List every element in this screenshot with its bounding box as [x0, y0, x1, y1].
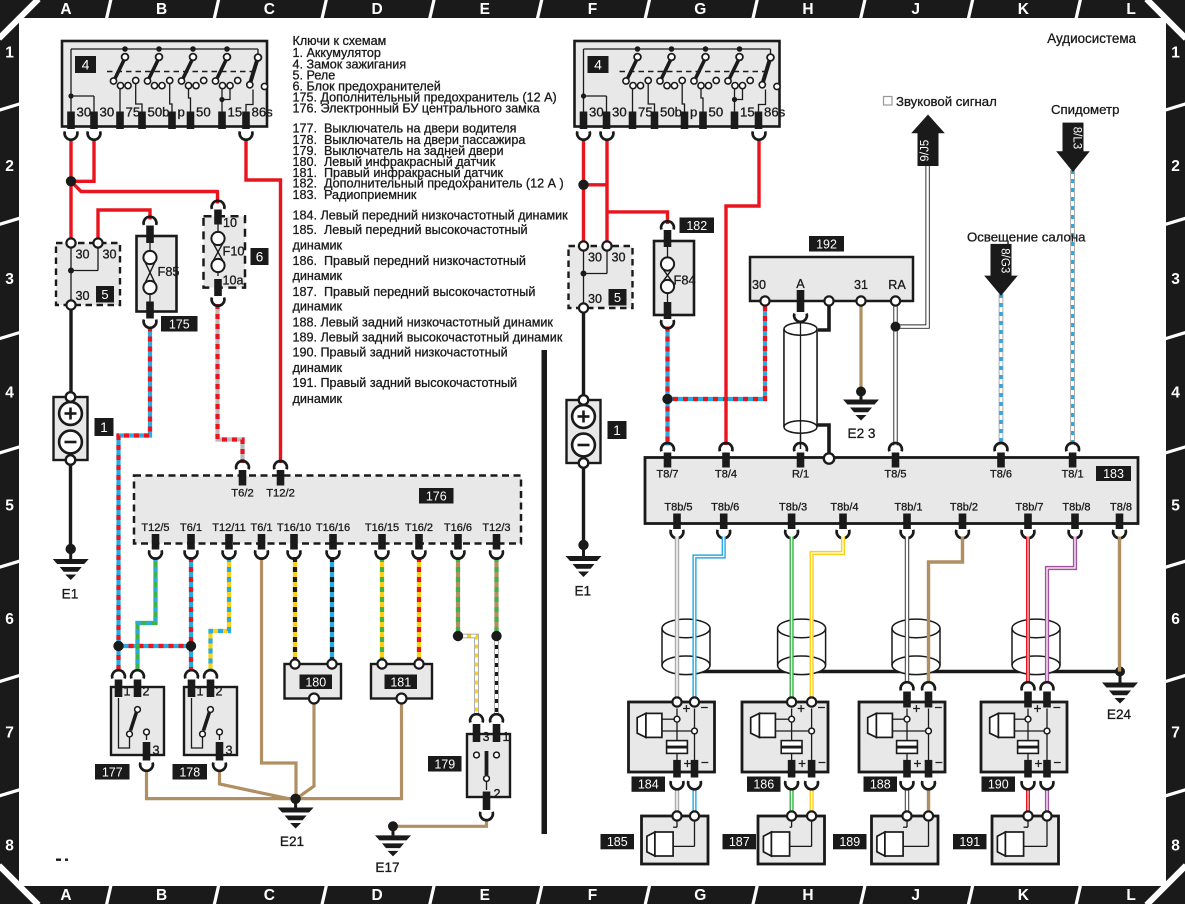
svg-text:T8b/1: T8b/1 — [894, 501, 922, 513]
svg-text:K: K — [1018, 1, 1030, 18]
svg-text:E: E — [480, 1, 490, 18]
svg-text:5: 5 — [1171, 498, 1180, 515]
svg-text:187. Правый передний высокоча: 187. Правый передний высокочастотный — [293, 285, 536, 299]
svg-text:A: A — [60, 887, 71, 904]
svg-text:187: 187 — [729, 835, 750, 849]
svg-text:−: − — [818, 700, 826, 715]
svg-text:184. Левый передний низкочасто: 184. Левый передний низкочастотный динам… — [293, 208, 569, 222]
svg-text:L: L — [1126, 1, 1135, 18]
svg-text:Звуковой сигнал: Звуковой сигнал — [896, 94, 997, 109]
svg-text:G: G — [694, 887, 706, 904]
svg-text:1: 1 — [100, 420, 108, 435]
svg-text:−: − — [935, 700, 943, 715]
svg-text:E1: E1 — [574, 584, 591, 599]
svg-text:T16/6: T16/6 — [444, 522, 472, 534]
svg-text:30: 30 — [588, 251, 602, 265]
svg-text:188: 188 — [870, 778, 891, 792]
svg-text:15: 15 — [740, 105, 755, 120]
svg-text:1: 1 — [503, 730, 510, 744]
svg-text:L: L — [1126, 887, 1135, 904]
svg-text:3: 3 — [226, 744, 233, 758]
svg-text:31: 31 — [854, 278, 868, 292]
svg-text:T8/6: T8/6 — [990, 469, 1012, 481]
svg-text:T8b/4: T8b/4 — [830, 501, 858, 513]
svg-text:1: 1 — [5, 45, 14, 62]
svg-text:−: − — [818, 755, 826, 770]
svg-text:30: 30 — [103, 248, 117, 262]
svg-text:T6/1: T6/1 — [180, 522, 202, 534]
svg-text:E2 3: E2 3 — [848, 426, 876, 441]
svg-text:6: 6 — [256, 249, 264, 264]
svg-text:p: p — [690, 105, 697, 120]
svg-text:7: 7 — [1171, 724, 1180, 741]
svg-text:T12/3: T12/3 — [482, 522, 510, 534]
svg-text:−: − — [701, 755, 709, 770]
svg-text:A: A — [60, 1, 71, 18]
svg-text:6: 6 — [1171, 611, 1180, 628]
svg-text:8: 8 — [5, 838, 14, 855]
svg-text:4: 4 — [594, 57, 602, 73]
svg-text:динамик: динамик — [293, 300, 343, 314]
svg-text:5: 5 — [614, 290, 621, 305]
svg-text:F85: F85 — [158, 264, 180, 279]
svg-text:183: 183 — [1103, 467, 1124, 481]
svg-text:C: C — [264, 887, 275, 904]
svg-text:T8/7: T8/7 — [656, 469, 678, 481]
svg-text:E1: E1 — [62, 587, 79, 602]
svg-text:4: 4 — [1171, 384, 1180, 401]
svg-text:15: 15 — [228, 105, 243, 120]
svg-text:177: 177 — [102, 765, 123, 779]
svg-text:RA: RA — [888, 278, 906, 292]
svg-text:R/1: R/1 — [792, 469, 809, 481]
svg-text:F10: F10 — [223, 244, 245, 259]
svg-text:C: C — [264, 1, 275, 18]
svg-text:30: 30 — [100, 105, 115, 120]
svg-text:динамик: динамик — [293, 238, 343, 252]
svg-text:+: + — [797, 701, 805, 716]
svg-text:184: 184 — [638, 778, 659, 792]
svg-text:189: 189 — [839, 835, 860, 849]
svg-text:2: 2 — [1171, 158, 1180, 175]
svg-text:176. Электронный БУ центрально: 176. Электронный БУ центрального замка — [293, 102, 540, 116]
svg-text:Спидометр: Спидометр — [1051, 102, 1119, 117]
svg-text:F84: F84 — [674, 273, 696, 288]
svg-text:178: 178 — [179, 765, 200, 779]
svg-text:G: G — [694, 1, 706, 18]
svg-text:3: 3 — [1171, 271, 1180, 288]
svg-text:189. Левый задний высокочастот: 189. Левый задний высокочастотный динами… — [293, 331, 563, 345]
svg-text:191: 191 — [959, 835, 980, 849]
svg-text:180: 180 — [305, 675, 326, 689]
svg-text:Аудиосистема: Аудиосистема — [1047, 31, 1136, 46]
svg-text:4: 4 — [82, 57, 90, 73]
svg-text:192: 192 — [816, 237, 837, 251]
svg-text:8/G3: 8/G3 — [999, 248, 1011, 273]
svg-text:86s: 86s — [252, 105, 274, 120]
svg-text:190. Правый задний низкочастот: 190. Правый задний низкочастотный — [293, 346, 508, 360]
svg-text:H: H — [802, 1, 813, 18]
svg-text:+: + — [798, 756, 806, 771]
svg-text:10a: 10a — [223, 274, 244, 288]
svg-text:−: − — [1053, 700, 1061, 715]
svg-text:5: 5 — [101, 287, 108, 302]
svg-text:9/J5: 9/J5 — [920, 140, 932, 162]
svg-text:F: F — [588, 887, 597, 904]
svg-text:30: 30 — [76, 248, 90, 262]
svg-text:T16/2: T16/2 — [405, 522, 433, 534]
svg-text:−: − — [701, 700, 709, 715]
svg-text:E: E — [480, 887, 490, 904]
svg-text:T6/1: T6/1 — [250, 522, 272, 534]
svg-text:J: J — [911, 1, 920, 18]
svg-text:T8b/5: T8b/5 — [664, 501, 692, 513]
svg-text:K: K — [1018, 887, 1030, 904]
svg-text:30: 30 — [76, 289, 90, 303]
svg-text:динамик: динамик — [293, 361, 343, 375]
svg-text:1: 1 — [1171, 45, 1180, 62]
svg-text:динамик: динамик — [293, 392, 343, 406]
svg-text:+: + — [914, 756, 922, 771]
svg-text:+: + — [683, 701, 691, 716]
svg-text:T16/16: T16/16 — [316, 522, 350, 534]
svg-text:T16/10: T16/10 — [277, 522, 311, 534]
svg-text:30: 30 — [612, 105, 627, 120]
svg-text:B: B — [156, 1, 167, 18]
svg-text:E17: E17 — [375, 860, 399, 875]
svg-text:30: 30 — [752, 278, 766, 292]
svg-text:2: 2 — [143, 685, 150, 699]
svg-text:30: 30 — [588, 292, 602, 306]
svg-text:50b: 50b — [148, 105, 170, 120]
svg-text:6: 6 — [5, 611, 14, 628]
svg-text:T12/5: T12/5 — [141, 522, 169, 534]
svg-text:181: 181 — [390, 675, 411, 689]
svg-text:T8/4: T8/4 — [715, 469, 737, 481]
svg-text:−: − — [935, 755, 943, 770]
svg-text:T12/2: T12/2 — [266, 488, 295, 500]
svg-text:7: 7 — [5, 724, 14, 741]
svg-text:D: D — [371, 887, 382, 904]
svg-text:30: 30 — [77, 105, 92, 120]
svg-text:T6/2: T6/2 — [231, 488, 253, 500]
svg-text:2: 2 — [494, 787, 501, 801]
svg-text:+: + — [1034, 701, 1042, 716]
svg-text:T8b/2: T8b/2 — [950, 501, 978, 513]
svg-text:1: 1 — [613, 423, 621, 438]
svg-text:−: − — [1054, 755, 1062, 770]
svg-text:185. Левый передний высокочас: 185. Левый передний высокочастотный — [293, 223, 528, 237]
svg-text:8: 8 — [1171, 838, 1180, 855]
svg-text:+: + — [913, 701, 921, 716]
svg-text:4: 4 — [5, 384, 14, 401]
svg-text:T8b/6: T8b/6 — [711, 501, 739, 513]
svg-text:+: + — [1035, 756, 1043, 771]
svg-text:3: 3 — [483, 730, 490, 744]
svg-text:176: 176 — [426, 489, 447, 503]
svg-text:191. Правый задний высокочасто: 191. Правый задний высокочастотный — [293, 376, 518, 390]
svg-text:1: 1 — [197, 685, 204, 699]
svg-text:динамик: динамик — [293, 269, 343, 283]
svg-text:B: B — [156, 887, 167, 904]
svg-text:185: 185 — [607, 835, 628, 849]
svg-text:F: F — [588, 1, 597, 18]
svg-text:86s: 86s — [764, 105, 786, 120]
svg-text:T16/15: T16/15 — [365, 522, 399, 534]
svg-text:1: 1 — [124, 685, 131, 699]
svg-text:175: 175 — [169, 317, 190, 331]
svg-text:183. Радиоприемник: 183. Радиоприемник — [293, 188, 417, 202]
svg-text:2: 2 — [216, 685, 223, 699]
svg-text:T8b/3: T8b/3 — [779, 501, 807, 513]
svg-text:T8b/7: T8b/7 — [1015, 501, 1043, 513]
svg-text:T8/8: T8/8 — [1110, 501, 1132, 513]
svg-text:186: 186 — [753, 778, 774, 792]
svg-text:50: 50 — [196, 105, 211, 120]
svg-text:30: 30 — [612, 251, 626, 265]
svg-text:2: 2 — [5, 158, 14, 175]
svg-text:50b: 50b — [660, 105, 682, 120]
svg-text:T8/5: T8/5 — [884, 469, 906, 481]
svg-text:H: H — [802, 887, 813, 904]
svg-text:T12/11: T12/11 — [212, 522, 245, 534]
svg-text:190: 190 — [988, 778, 1009, 792]
svg-text:188. Левый задний низкочастотн: 188. Левый задний низкочастотный динамик — [293, 316, 554, 330]
svg-text:5: 5 — [5, 498, 14, 515]
svg-text:E24: E24 — [1107, 707, 1132, 722]
svg-text:p: p — [178, 105, 185, 120]
svg-text:179: 179 — [434, 757, 455, 771]
svg-text:75: 75 — [126, 105, 141, 120]
svg-text:30: 30 — [589, 105, 604, 120]
svg-text:A: A — [796, 277, 805, 291]
svg-text:10: 10 — [223, 216, 237, 230]
svg-text:T8/1: T8/1 — [1062, 469, 1084, 481]
svg-text:+: + — [684, 756, 692, 771]
svg-text:75: 75 — [638, 105, 653, 120]
svg-text:T8b/8: T8b/8 — [1062, 501, 1090, 513]
svg-text:3: 3 — [5, 271, 14, 288]
svg-text:3: 3 — [153, 744, 160, 758]
svg-text:186. Правый передний низкочас: 186. Правый передний низкочастотный — [293, 254, 526, 268]
svg-text:D: D — [371, 1, 382, 18]
svg-text:182: 182 — [686, 219, 707, 233]
svg-text:50: 50 — [709, 105, 724, 120]
svg-text:E21: E21 — [280, 834, 304, 849]
svg-text:Освещение салона: Освещение салона — [967, 230, 1086, 245]
svg-text:8/L3: 8/L3 — [1071, 127, 1083, 149]
svg-text:J: J — [911, 887, 920, 904]
